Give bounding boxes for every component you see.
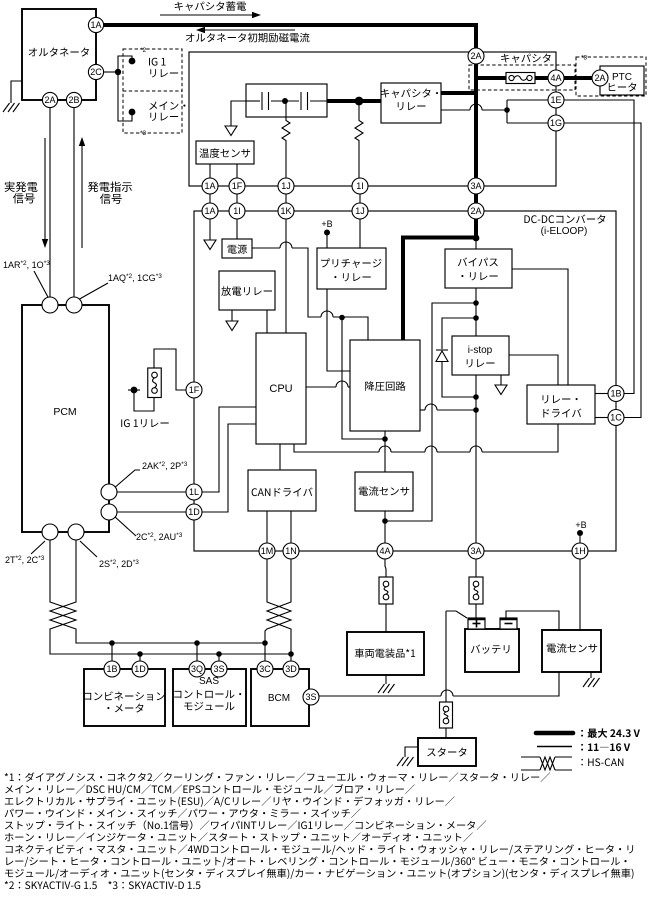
svg-text:1A: 1A — [90, 20, 101, 30]
svg-text:+B: +B — [575, 520, 586, 530]
svg-text:*3: *3 — [140, 130, 147, 137]
svg-text:2A: 2A — [470, 51, 481, 61]
svg-text:1L: 1L — [189, 487, 199, 497]
svg-text:SAS: SAS — [199, 676, 219, 687]
svg-text:1D: 1D — [134, 664, 146, 674]
svg-text:i-stop: i-stop — [468, 345, 493, 356]
svg-text:1I: 1I — [233, 206, 241, 216]
svg-text:1K: 1K — [280, 206, 291, 216]
svg-text:2A: 2A — [44, 95, 55, 105]
svg-text:+B: +B — [321, 219, 332, 229]
svg-text:1M: 1M — [261, 546, 274, 556]
svg-text:1N: 1N — [285, 546, 297, 556]
svg-text:1A: 1A — [204, 206, 215, 216]
svg-text:BCM: BCM — [268, 693, 290, 704]
svg-text:1AR*2, 1O*3: 1AR*2, 1O*3 — [3, 260, 50, 270]
svg-text:1I: 1I — [356, 181, 364, 191]
svg-text:3D: 3D — [285, 664, 297, 674]
svg-text:(i-ELOOP): (i-ELOOP) — [541, 226, 588, 237]
svg-text:1E: 1E — [550, 95, 561, 105]
svg-text:1C: 1C — [610, 413, 622, 423]
svg-text:2C: 2C — [90, 67, 102, 77]
svg-text:1B: 1B — [106, 664, 117, 674]
svg-text:1D: 1D — [188, 507, 200, 517]
svg-text:1J: 1J — [355, 206, 365, 216]
svg-text:1F: 1F — [232, 181, 243, 191]
svg-text:3S: 3S — [305, 692, 316, 702]
svg-text:3C: 3C — [259, 664, 271, 674]
svg-text:4A: 4A — [379, 546, 390, 556]
svg-text:1AQ*2, 1CG*3: 1AQ*2, 1CG*3 — [108, 273, 162, 283]
svg-text:1F: 1F — [189, 385, 200, 395]
svg-text:1B: 1B — [610, 389, 621, 399]
svg-text:1A: 1A — [204, 181, 215, 191]
svg-text:3A: 3A — [470, 181, 481, 191]
svg-text:2A: 2A — [594, 73, 605, 83]
svg-text:CPU: CPU — [269, 383, 292, 395]
svg-text:3A: 3A — [470, 546, 481, 556]
svg-text:1H: 1H — [574, 546, 586, 556]
svg-text:2B: 2B — [68, 95, 79, 105]
svg-text:*3: *3 — [581, 55, 588, 62]
svg-text:2A: 2A — [470, 206, 481, 216]
svg-text:*2: *2 — [140, 47, 147, 54]
svg-text:2C*2, 2AU*3: 2C*2, 2AU*3 — [136, 532, 183, 542]
svg-text:4A: 4A — [550, 73, 561, 83]
svg-text:PTC: PTC — [612, 72, 632, 83]
svg-text:2AK*2, 2P*3: 2AK*2, 2P*3 — [142, 461, 188, 471]
svg-text:1J: 1J — [281, 181, 291, 191]
svg-text:PCM: PCM — [53, 406, 76, 418]
svg-text:3S: 3S — [213, 664, 224, 674]
svg-text:1G: 1G — [550, 118, 562, 128]
svg-text:3Q: 3Q — [191, 664, 203, 674]
